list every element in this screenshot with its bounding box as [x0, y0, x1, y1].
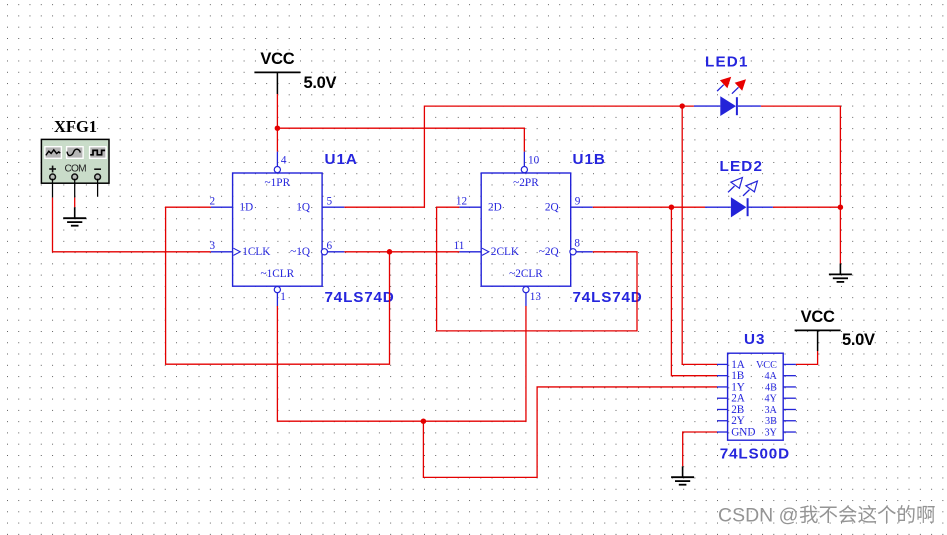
svg-text:2Q: 2Q	[545, 202, 559, 214]
wire stub U1B pin10	[523, 152, 525, 167]
wire LED1 node down to U3 1A	[682, 106, 717, 364]
svg-text:1B: 1B	[731, 370, 744, 382]
stub XFG1 minus terminal	[97, 179, 99, 197]
wire U1A 1Q (pin5) to LED1	[344, 106, 694, 207]
junction right rail at LED2 row	[838, 204, 844, 210]
svg-text:2: 2	[210, 195, 216, 207]
svg-text:1A: 1A	[731, 359, 745, 371]
svg-text:2D: 2D	[488, 202, 502, 214]
flip-flop U1A 74LS74D	[233, 173, 323, 286]
LED2 diode	[705, 206, 731, 208]
wire LED2 node down to U3 1B	[671, 207, 717, 375]
junction VCC node	[275, 125, 281, 131]
svg-text:~2Q: ~2Q	[539, 246, 559, 258]
ground (right rail)	[839, 264, 841, 275]
wire stub U1B pin9 (2Q)	[571, 206, 593, 208]
svg-text:~2PR: ~2PR	[513, 177, 539, 189]
IC U3 74LS00D quad NAND	[728, 353, 784, 440]
ground (U3)	[682, 466, 684, 477]
svg-text:LED2: LED2	[720, 158, 764, 175]
wire stub U1B pin12 (2D)	[459, 206, 481, 208]
wire U1B ~2Q (pin8) feedback to 2D (pin12)	[437, 207, 637, 331]
junction LED1 node	[679, 103, 685, 109]
svg-text:9: 9	[575, 195, 581, 207]
svg-text:4Y: 4Y	[764, 394, 777, 405]
wire stub U1A pin4	[276, 152, 278, 167]
svg-text:2A: 2A	[731, 393, 745, 405]
svg-text:GND: GND	[731, 426, 755, 438]
svg-text:XFG1: XFG1	[54, 117, 97, 136]
wire XFG1 plus terminal to U1A 1CLK (pin 3)	[52, 179, 54, 198]
svg-text:3Y: 3Y	[764, 427, 777, 438]
wire stub U1A pin1	[276, 293, 278, 307]
function generator XFG1	[41, 139, 109, 183]
svg-text:8: 8	[574, 238, 580, 250]
wire right rail to ground	[839, 207, 841, 263]
wire VCC to U1A pin 4	[276, 94, 278, 128]
svg-text:12: 12	[456, 195, 467, 207]
svg-text:1Y: 1Y	[731, 381, 745, 393]
svg-text:1: 1	[280, 291, 286, 303]
svg-text:2CLK: 2CLK	[491, 246, 520, 258]
wire stub U1B pin8 (~2Q)	[576, 251, 593, 253]
svg-text:74LS74D: 74LS74D	[573, 289, 643, 306]
svg-text:5.0V: 5.0V	[304, 74, 337, 92]
wire stub U1A pin3 (1CLK)	[211, 251, 233, 253]
svg-text:1Q: 1Q	[296, 202, 310, 214]
svg-text:2Y: 2Y	[731, 415, 745, 427]
wire CLR net to U3 1Y	[423, 387, 717, 477]
wire stub U1B pin11 (2CLK)	[459, 251, 481, 253]
svg-text:VCC: VCC	[801, 308, 835, 326]
wire VCC to U1B pin 10	[277, 128, 524, 152]
wire stub U1B pin13	[525, 293, 527, 307]
svg-text:10: 10	[528, 154, 540, 166]
svg-text:3B: 3B	[765, 416, 777, 427]
svg-text:U1A: U1A	[325, 151, 358, 168]
svg-text:1D: 1D	[239, 202, 253, 214]
svg-text:4: 4	[281, 154, 287, 166]
wire stub U1A pin2 (1D)	[211, 206, 233, 208]
svg-text:~1PR: ~1PR	[265, 177, 291, 189]
svg-text:2B: 2B	[731, 404, 744, 416]
junction LED2 node	[669, 204, 675, 210]
svg-text:~2CLR: ~2CLR	[509, 268, 543, 280]
svg-text:74LS74D: 74LS74D	[325, 289, 395, 306]
svg-text:4B: 4B	[765, 382, 777, 393]
wire U1A ~1CLR (pin1) to U1B ~2CLR (pin13)	[277, 306, 526, 421]
svg-text:~1CLR: ~1CLR	[260, 268, 294, 280]
svg-text:VCC: VCC	[260, 50, 294, 68]
svg-text:13: 13	[530, 291, 542, 303]
wire U1B 2Q (pin9) to LED2	[593, 206, 705, 208]
flip-flop U1B 74LS74D	[481, 173, 571, 286]
wire stub U1A pin5 (1Q)	[322, 206, 344, 208]
svg-text:74LS00D: 74LS00D	[720, 446, 790, 463]
wire LED2 cathode to right rail	[773, 206, 841, 208]
wire XFG1 COM terminal to ground	[74, 179, 76, 198]
wire U3 VCC pin to VCC	[796, 351, 818, 364]
svg-text:1CLK: 1CLK	[242, 246, 271, 258]
junction ~1Q feedback node	[387, 249, 393, 255]
LED1 diode	[694, 105, 720, 107]
svg-text:3: 3	[210, 240, 216, 252]
wire U1A ~1Q (pin6) to U1B 2CLK (pin11)	[344, 251, 459, 253]
svg-text:~1Q: ~1Q	[290, 246, 310, 258]
svg-text:COM: COM	[65, 163, 87, 174]
svg-text:VCC: VCC	[756, 360, 777, 371]
ground for XFG1 COM	[74, 207, 76, 218]
svg-text:6: 6	[327, 240, 333, 252]
svg-text:U1B: U1B	[573, 151, 606, 168]
svg-text:U3: U3	[744, 331, 765, 348]
svg-text:3A: 3A	[764, 405, 777, 416]
wire ~1Q feedback to 1D (pin2)	[166, 207, 390, 364]
svg-text:11: 11	[454, 240, 465, 252]
junction CLR net	[421, 418, 427, 424]
svg-text:5.0V: 5.0V	[842, 331, 875, 349]
wire U3 GND pin to ground	[683, 432, 717, 466]
wire stub U1A pin6 (~1Q)	[328, 251, 345, 253]
svg-text:LED1: LED1	[705, 54, 749, 71]
wire LED1 cathode to right rail and down	[761, 106, 841, 207]
svg-text:CSDN @: CSDN @	[718, 505, 798, 527]
svg-text:5: 5	[327, 195, 333, 207]
svg-text:4A: 4A	[764, 371, 777, 382]
